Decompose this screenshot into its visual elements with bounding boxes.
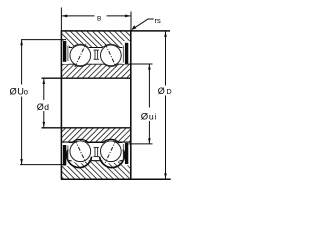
svg-text:u: u	[149, 112, 154, 122]
seal right bottom	[123, 143, 128, 164]
svg-text:D: D	[166, 87, 171, 96]
svg-text:Ø: Ø	[10, 87, 17, 97]
left face	[60, 30, 62, 179]
ball B4	[101, 141, 122, 162]
svg-text:Ø: Ø	[37, 102, 44, 112]
svg-text:i: i	[155, 113, 157, 122]
ball B3 raceway notches (bottom-left)	[67, 139, 93, 167]
cage rivet bottom	[94, 147, 99, 157]
right face	[130, 30, 132, 179]
seal left top	[63, 41, 68, 62]
inner ring top band	[61, 64, 130, 78]
cage rivet top	[94, 50, 99, 60]
seal left bottom	[63, 145, 68, 166]
inner ring bottom band	[61, 128, 130, 143]
svg-text:B: B	[97, 15, 101, 22]
bore line top section	[42, 77, 131, 79]
svg-text:Ø: Ø	[158, 86, 165, 96]
seal groove left bottom	[62, 143, 69, 166]
ball B4 raceway notches (bottom-right)	[98, 139, 124, 167]
seal groove left top	[62, 41, 69, 64]
contact line ball B4	[105, 140, 116, 163]
seal groove right top	[122, 41, 130, 64]
ball B1 raceway notches (top-left)	[69, 44, 91, 66]
shoulder line right (ui)	[129, 63, 153, 65]
leader rs	[131, 19, 153, 30]
svg-text:Ø: Ø	[141, 111, 149, 122]
svg-text:o: o	[24, 88, 29, 97]
shoulder line left (Uo)	[21, 39, 66, 41]
top edge + OD extension	[61, 30, 170, 32]
bore line bottom section	[42, 127, 131, 129]
dimension ui	[148, 64, 151, 144]
shoulder line right bottom (ui)	[129, 143, 153, 145]
seal groove right bottom	[122, 143, 130, 166]
contact line ball B3	[75, 140, 86, 163]
bottom edge + OD extension	[61, 178, 171, 180]
contact line ball B1	[75, 44, 86, 67]
contact line ball B2	[105, 44, 116, 67]
seal right top	[123, 43, 128, 64]
dimension OD	[164, 31, 167, 179]
outer ring top band	[61, 31, 130, 48]
dimension d	[43, 78, 46, 127]
dimension Uo	[20, 40, 23, 165]
outer ring bottom band	[61, 161, 130, 180]
ball B1	[70, 45, 91, 66]
dimension B	[61, 8, 131, 32]
svg-text:rs: rs	[155, 16, 161, 25]
shoulder line left bottom (Uo)	[20, 164, 66, 166]
ball B2	[101, 45, 122, 66]
ball B2 raceway notches (top-right)	[100, 44, 122, 66]
svg-text:d: d	[44, 102, 49, 112]
ball B3	[70, 141, 91, 162]
